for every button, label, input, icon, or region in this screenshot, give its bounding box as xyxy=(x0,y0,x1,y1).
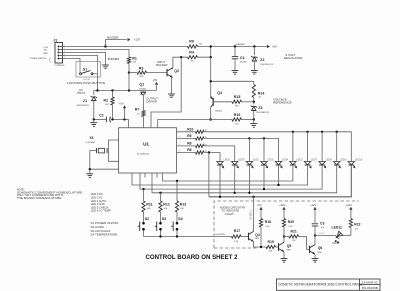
resistor R14 xyxy=(253,81,255,84)
resistor R5 xyxy=(177,137,196,139)
svg-text:LED1: LED1 xyxy=(253,159,260,162)
svg-text:REFERENCE: REFERENCE xyxy=(273,101,292,105)
svg-text:C2: C2 xyxy=(99,114,104,118)
svg-text:Q3: Q3 xyxy=(217,91,222,95)
wire anode drop xyxy=(263,138,265,161)
svg-text:PROT.: PROT. xyxy=(78,91,86,95)
svg-text:R7: R7 xyxy=(135,108,140,112)
node R15/R14/Z3 junction xyxy=(253,101,255,103)
svg-text:BURNED: BURNED xyxy=(236,44,246,46)
wire Q5 collector up xyxy=(283,236,285,242)
svg-text:THE BOARD NOMENCLATURE: THE BOARD NOMENCLATURE xyxy=(17,196,62,200)
svg-text:Q1: Q1 xyxy=(139,83,144,87)
svg-text:R12: R12 xyxy=(163,202,169,206)
svg-text:DRIVER: DRIVER xyxy=(146,100,157,104)
wire J1 pin2 to R1 xyxy=(63,50,130,58)
wire crystal to U1 ground pin xyxy=(90,151,119,170)
wire Q2 collector to R4 xyxy=(173,57,188,69)
svg-text:+5V: +5V xyxy=(257,203,262,207)
LED LED11 xyxy=(334,231,343,240)
zener Z3 xyxy=(253,102,255,105)
svg-text:R19: R19 xyxy=(268,240,274,244)
wire R7 to U1 xyxy=(143,117,145,128)
node Z2 tap xyxy=(253,45,255,47)
wire LED cathode drop first xyxy=(219,165,221,197)
svg-text:Z1: Z1 xyxy=(83,99,87,103)
svg-text:NPN: NPN xyxy=(287,250,292,252)
node C1 tap xyxy=(234,45,236,47)
resistor R1 xyxy=(127,57,130,64)
svg-text:LED9: LED9 xyxy=(340,159,347,162)
svg-text:+12V: +12V xyxy=(346,203,352,207)
wire R12 up xyxy=(160,193,162,201)
node Q3 collector / R16 junction xyxy=(210,118,212,120)
svg-text:LED4: LED4 xyxy=(282,159,289,162)
wire R12 to switch S3 xyxy=(160,212,162,222)
wire LED2 cathode drop xyxy=(234,165,236,193)
wire R11 up xyxy=(143,189,145,201)
node Q6/C3/LED11 junction xyxy=(314,234,316,236)
svg-text:R8: R8 xyxy=(187,148,191,152)
resistor R20 xyxy=(282,219,285,228)
wire rail4 to L5 vertical xyxy=(208,153,210,197)
wire Q6 collector up xyxy=(314,235,316,244)
node R2 junction xyxy=(111,118,113,120)
wire R21 to Q6 base xyxy=(299,236,310,249)
wire Q5 emitter to ground xyxy=(283,252,285,259)
svg-text:LED6: LED6 xyxy=(238,159,245,162)
node rail4 / U1 line junction xyxy=(208,151,210,153)
node R11 line junction xyxy=(142,188,144,190)
svg-text:POWER SWITCH: POWER SWITCH xyxy=(30,58,47,60)
svg-text:LED7: LED7 xyxy=(311,159,318,162)
svg-text:2.2K: 2.2K xyxy=(265,226,270,228)
LED LED6 xyxy=(232,162,238,165)
node rail1 anode tap x=292.9 xyxy=(292,131,294,133)
svg-text:LED3: LED3 xyxy=(296,159,303,162)
svg-text:NPN: NPN xyxy=(318,252,323,254)
svg-text:R22: R22 xyxy=(354,222,360,226)
svg-text:Z2: Z2 xyxy=(260,58,264,62)
ground (Q6) xyxy=(312,258,319,260)
wire anode drop xyxy=(292,132,294,162)
switch S2 push-button xyxy=(142,222,145,225)
svg-text:4.7K: 4.7K xyxy=(288,226,293,228)
resistor R15 xyxy=(232,100,242,103)
svg-text:LED8: LED8 xyxy=(326,159,333,162)
resistor R8 xyxy=(177,152,196,154)
wire fault sense line down to Q4 xyxy=(253,197,255,232)
LED LED7 xyxy=(304,162,310,165)
svg-text:BUFFER: BUFFER xyxy=(156,63,167,67)
wire BUZZER xyxy=(105,40,126,47)
svg-text:R17: R17 xyxy=(234,229,240,233)
wire +12V rail from J1 pin1 xyxy=(63,46,188,48)
LED LED9 xyxy=(334,162,340,165)
wire rail junction down to reference xyxy=(210,57,212,97)
wire LED11 net xyxy=(315,234,335,236)
svg-text:R3: R3 xyxy=(139,66,144,70)
svg-text:DOMETIC REFRIGERATOR/RM 3663 C: DOMETIC REFRIGERATOR/RM 3663 CONTROL PAN… xyxy=(278,282,363,286)
svg-text:BUZZER: BUZZER xyxy=(107,35,118,39)
wire anode rail 2 (R5) xyxy=(204,138,279,161)
node R2 top junction xyxy=(111,89,113,91)
wire cathode line L1 xyxy=(163,165,293,181)
node R12 line junction xyxy=(159,192,161,194)
svg-text:GND: GND xyxy=(43,53,48,55)
LED LED4 xyxy=(275,162,281,165)
svg-text:FAULT: FAULT xyxy=(333,242,341,245)
svg-text:1N5239B 9.1V: 1N5239B 9.1V xyxy=(260,64,274,66)
wire LED1 cathode drop xyxy=(248,165,250,193)
wire anode drop xyxy=(321,132,323,162)
resistor R9 xyxy=(188,45,198,48)
wire Q3 collector down xyxy=(210,107,212,119)
svg-text:S1-7433S2-A: S1-7433S2-A xyxy=(137,152,150,155)
node Z1/C2 junction xyxy=(93,118,95,120)
svg-text:23-MAR-02: 23-MAR-02 xyxy=(362,280,378,284)
svg-text:S2: S2 xyxy=(145,217,149,221)
node rail1 anode tap x=307.5 xyxy=(306,131,308,133)
op-amp U1 microcontroller xyxy=(119,128,177,173)
node BUZZER tap xyxy=(104,45,106,47)
svg-text:4.7K: 4.7K xyxy=(234,241,239,243)
wire J1 pin5 to S1 xyxy=(63,59,81,62)
svg-text:+5V: +5V xyxy=(153,79,158,82)
svg-text:10: 10 xyxy=(179,137,181,139)
svg-text:LATCHING PUSH-BUTTON: LATCHING PUSH-BUTTON xyxy=(67,81,105,85)
resistor R18 xyxy=(259,219,262,228)
wire LED5 cathode drop xyxy=(278,165,280,185)
LED LED5 xyxy=(217,162,223,165)
svg-text:2N4403: 2N4403 xyxy=(139,88,147,90)
resistor R3 xyxy=(129,72,137,74)
resistor R21 xyxy=(284,235,289,237)
svg-text:2N4403: 2N4403 xyxy=(215,110,223,112)
wire cathode line L5 xyxy=(209,165,351,197)
power +5V arrow (Q1) xyxy=(156,85,158,90)
node Q5/R20/R21 junction xyxy=(283,235,285,237)
svg-text:U1: U1 xyxy=(143,141,149,146)
wire Q1 collector to R7 xyxy=(142,95,144,111)
svg-text:R13: R13 xyxy=(180,202,186,206)
svg-text:1N5269B/20V: 1N5269B/20V xyxy=(77,105,90,107)
resistor R6 xyxy=(177,145,196,147)
svg-text:+5V: +5V xyxy=(119,101,124,105)
svg-text:R5: R5 xyxy=(187,134,191,138)
svg-text:FAULT: FAULT xyxy=(225,212,234,216)
resistor R11 xyxy=(142,201,145,212)
svg-text:R16: R16 xyxy=(234,113,241,117)
switch S1 latching push-button xyxy=(76,62,101,78)
resistor R13 xyxy=(175,201,178,212)
svg-text:C1: C1 xyxy=(240,56,245,60)
svg-text:J1: J1 xyxy=(54,39,58,43)
wire anode rail 3 (R6) xyxy=(204,146,235,162)
svg-text:CONN-H5: CONN-H5 xyxy=(55,65,66,67)
wire Q4 emitter line to Q5 base xyxy=(254,242,267,248)
svg-text:R6: R6 xyxy=(187,142,191,146)
LED LED8 xyxy=(319,162,325,165)
svg-text:1N5226B/3.3V: 1N5226B/3.3V xyxy=(256,112,270,114)
svg-text:LED10: LED10 xyxy=(355,159,363,162)
svg-text:9: 9 xyxy=(179,130,180,132)
svg-text:+12V: +12V xyxy=(43,47,49,49)
zener Z1 xyxy=(93,91,95,96)
wire anode drop xyxy=(336,132,338,162)
wire anode drop xyxy=(248,138,250,161)
node reference top junction xyxy=(210,80,212,82)
zener Z2 xyxy=(253,47,255,56)
svg-text:+12V: +12V xyxy=(134,38,140,42)
node R1 column junction xyxy=(128,89,130,91)
svg-text:R18: R18 xyxy=(265,220,271,224)
node LED/L5 xyxy=(219,196,221,198)
wire cathode line L2 xyxy=(132,165,308,185)
svg-text:LED5: LED5 xyxy=(223,159,230,162)
node S3 bus junction xyxy=(159,235,161,237)
switch S3 push-button xyxy=(159,222,162,225)
node R1/R3 junction xyxy=(128,71,130,73)
svg-text:CONTROL BOARD ON SHEET 2: CONTROL BOARD ON SHEET 2 xyxy=(146,254,239,261)
transistor Q3 (PNP) xyxy=(212,98,214,106)
svg-text:REGULATOR: REGULATOR xyxy=(284,56,303,60)
node S1 junction xyxy=(96,89,98,91)
node rail2 anode tap x=264 xyxy=(263,137,265,139)
LED LED10 xyxy=(348,162,354,165)
transistor Q5 xyxy=(278,243,280,251)
svg-text:S3: S3 xyxy=(162,217,166,221)
wire +9V rail after R9 xyxy=(198,46,267,48)
transistor Q1 (PNP, pointing down) xyxy=(140,91,146,93)
LED LED3 xyxy=(290,162,296,165)
resistor R16 xyxy=(232,118,242,121)
node rail2 anode tap x=249.4 xyxy=(248,137,250,139)
svg-text:R4: R4 xyxy=(189,51,194,55)
svg-text:R20: R20 xyxy=(288,220,294,224)
node Z3/R16/ground junction xyxy=(253,118,255,120)
svg-text:+9V: +9V xyxy=(272,45,277,49)
svg-text:3.3K: 3.3K xyxy=(105,104,110,106)
svg-text:R1: R1 xyxy=(132,57,137,61)
transistor Q6 xyxy=(309,246,311,254)
node LED2/L4 xyxy=(234,192,236,194)
power +9V arrow xyxy=(267,45,270,48)
wire R18 down to emitter line xyxy=(260,227,262,247)
svg-text:S4 TEMPERATURE: S4 TEMPERATURE xyxy=(91,233,118,237)
svg-text:13: 13 xyxy=(179,151,181,153)
svg-text:S4: S4 xyxy=(178,217,182,221)
svg-text:S4-BELL: S4-BELL xyxy=(249,209,253,220)
node rail1 anode tap x=322.1 xyxy=(321,131,323,133)
transistor Q4 xyxy=(248,233,250,241)
ground (Z1/C2) xyxy=(93,119,95,122)
node LED5/L2 xyxy=(277,184,279,186)
ground (Q2) xyxy=(168,93,175,95)
svg-text:RS-80230B: RS-80230B xyxy=(362,286,378,290)
wire U1 left pin 1 (crystal top) xyxy=(108,140,118,161)
wire S1 to protection node xyxy=(97,74,99,90)
crystal X1 xyxy=(106,148,108,153)
svg-text:R21: R21 xyxy=(291,230,297,234)
node S4 bus junction xyxy=(176,235,178,237)
svg-text:R2: R2 xyxy=(104,98,109,102)
svg-text:Q2: Q2 xyxy=(174,69,179,73)
node LED4/L3 xyxy=(263,188,265,190)
U1 bottom NC pin stubs xyxy=(144,173,146,178)
wire J1 pin3 xyxy=(63,53,106,66)
wire LED4 cathode drop xyxy=(263,165,265,189)
node R18/R19 junction xyxy=(260,246,262,248)
svg-text:+12V: +12V xyxy=(279,203,285,207)
LED LED2 xyxy=(261,162,267,165)
wire anode rail 4 (R8) xyxy=(204,153,220,162)
wire R20 down xyxy=(283,227,285,236)
svg-text:NC: NC xyxy=(44,50,48,52)
wire Q2 emitter to ground xyxy=(172,77,173,94)
wire protection node / Q1 emitter line xyxy=(94,90,157,92)
node LED1/L4 xyxy=(248,192,250,194)
capacitor C3 xyxy=(312,223,318,225)
svg-text:LED2: LED2 xyxy=(267,159,274,162)
wire switch S3 to bus xyxy=(160,230,162,236)
dashed box ADDED CIRCUITRY xyxy=(214,201,359,248)
wire switch S4 to bus xyxy=(176,230,178,236)
svg-text:R9: R9 xyxy=(189,39,194,43)
svg-text:R14: R14 xyxy=(258,91,265,95)
svg-text:Q5: Q5 xyxy=(287,244,292,248)
wire R4 to rail junction xyxy=(198,47,211,58)
capacitor C2 xyxy=(105,117,107,123)
node R4/rail junctions xyxy=(210,45,212,47)
svg-text:S4-HORN: S4-HORN xyxy=(215,234,225,236)
svg-text:12: 12 xyxy=(179,144,181,146)
title block xyxy=(277,279,381,290)
power +5V arrow (C2 node) xyxy=(123,118,125,120)
node rail1 anode tap x=336.7 xyxy=(336,131,338,133)
wire anode drop xyxy=(307,132,309,162)
svg-text:R15: R15 xyxy=(234,95,241,99)
ground (reference) xyxy=(253,120,255,124)
resistor R12 xyxy=(159,201,162,212)
wire J1 pin4 to S1 xyxy=(63,56,98,62)
svg-text:S1: S1 xyxy=(83,68,87,72)
wire R4 node down to U1 pin xyxy=(151,57,181,128)
wire reference top link xyxy=(211,80,254,82)
switch S4 push-button xyxy=(176,222,179,225)
node R13 line junction xyxy=(176,180,178,182)
svg-text:R11: R11 xyxy=(146,202,152,206)
svg-text:+12V: +12V xyxy=(310,203,316,207)
ground (X1/U1) xyxy=(89,169,91,174)
svg-text:X1: X1 xyxy=(90,136,94,140)
wire R1 to R3 node xyxy=(128,64,130,73)
svg-text:BURNER: BURNER xyxy=(108,57,119,61)
transistor Q2 xyxy=(166,69,168,77)
wire cathode line L3 xyxy=(140,165,322,189)
resistor R10 xyxy=(177,131,196,133)
svg-text:C3: C3 xyxy=(320,221,324,225)
node R4 left / U1 feedback junction xyxy=(180,56,182,58)
wire switch S2 to bus xyxy=(143,230,145,236)
ground (J1) xyxy=(102,64,109,66)
capacitor C1 xyxy=(234,47,236,57)
wire cathode line L4 xyxy=(152,165,337,193)
svg-text:R10: R10 xyxy=(187,127,193,131)
svg-text:100/16: 100/16 xyxy=(240,62,247,64)
resistor R17 xyxy=(230,236,232,238)
svg-text:NPN: NPN xyxy=(255,238,260,240)
wire R11 to switch S2 xyxy=(143,212,145,222)
svg-text:1N5294: 1N5294 xyxy=(319,233,325,235)
wire C2 node line xyxy=(94,118,107,120)
wire switch common bus xyxy=(144,236,230,238)
svg-text:4.19 MHZ: 4.19 MHZ xyxy=(86,142,96,144)
ground (Q5) xyxy=(281,258,288,260)
resistor R4 xyxy=(188,56,198,59)
wire U1 pin to R16 line xyxy=(158,120,232,128)
svg-text:Z3: Z3 xyxy=(258,106,262,110)
power +12V arrow (buzzer) xyxy=(128,38,131,41)
wire R13 up xyxy=(176,181,178,201)
wire R1 column down to Q1 line xyxy=(128,73,130,91)
wire Q6 emitter to ground xyxy=(314,254,316,258)
ground (Z2) xyxy=(251,70,258,72)
resistor R7 xyxy=(142,111,145,117)
resistor R2 xyxy=(112,91,114,98)
resistor R22 xyxy=(349,219,352,228)
ground (C1) xyxy=(232,70,239,72)
node crystal ground junction xyxy=(89,168,91,170)
svg-text:LED11: LED11 xyxy=(332,226,342,230)
node fault tap on L5 xyxy=(252,196,254,198)
wire R13 to switch S4 xyxy=(176,212,178,222)
connector J1 xyxy=(55,43,63,64)
wire anode rail 1 (R10) xyxy=(204,132,351,162)
LED LED1 xyxy=(246,162,252,165)
svg-text:Q4: Q4 xyxy=(255,233,260,237)
resistor R19 xyxy=(266,245,276,248)
svg-text:Q6: Q6 xyxy=(318,246,323,250)
svg-text:LED 6 LO TEMP: LED 6 LO TEMP xyxy=(91,209,111,213)
